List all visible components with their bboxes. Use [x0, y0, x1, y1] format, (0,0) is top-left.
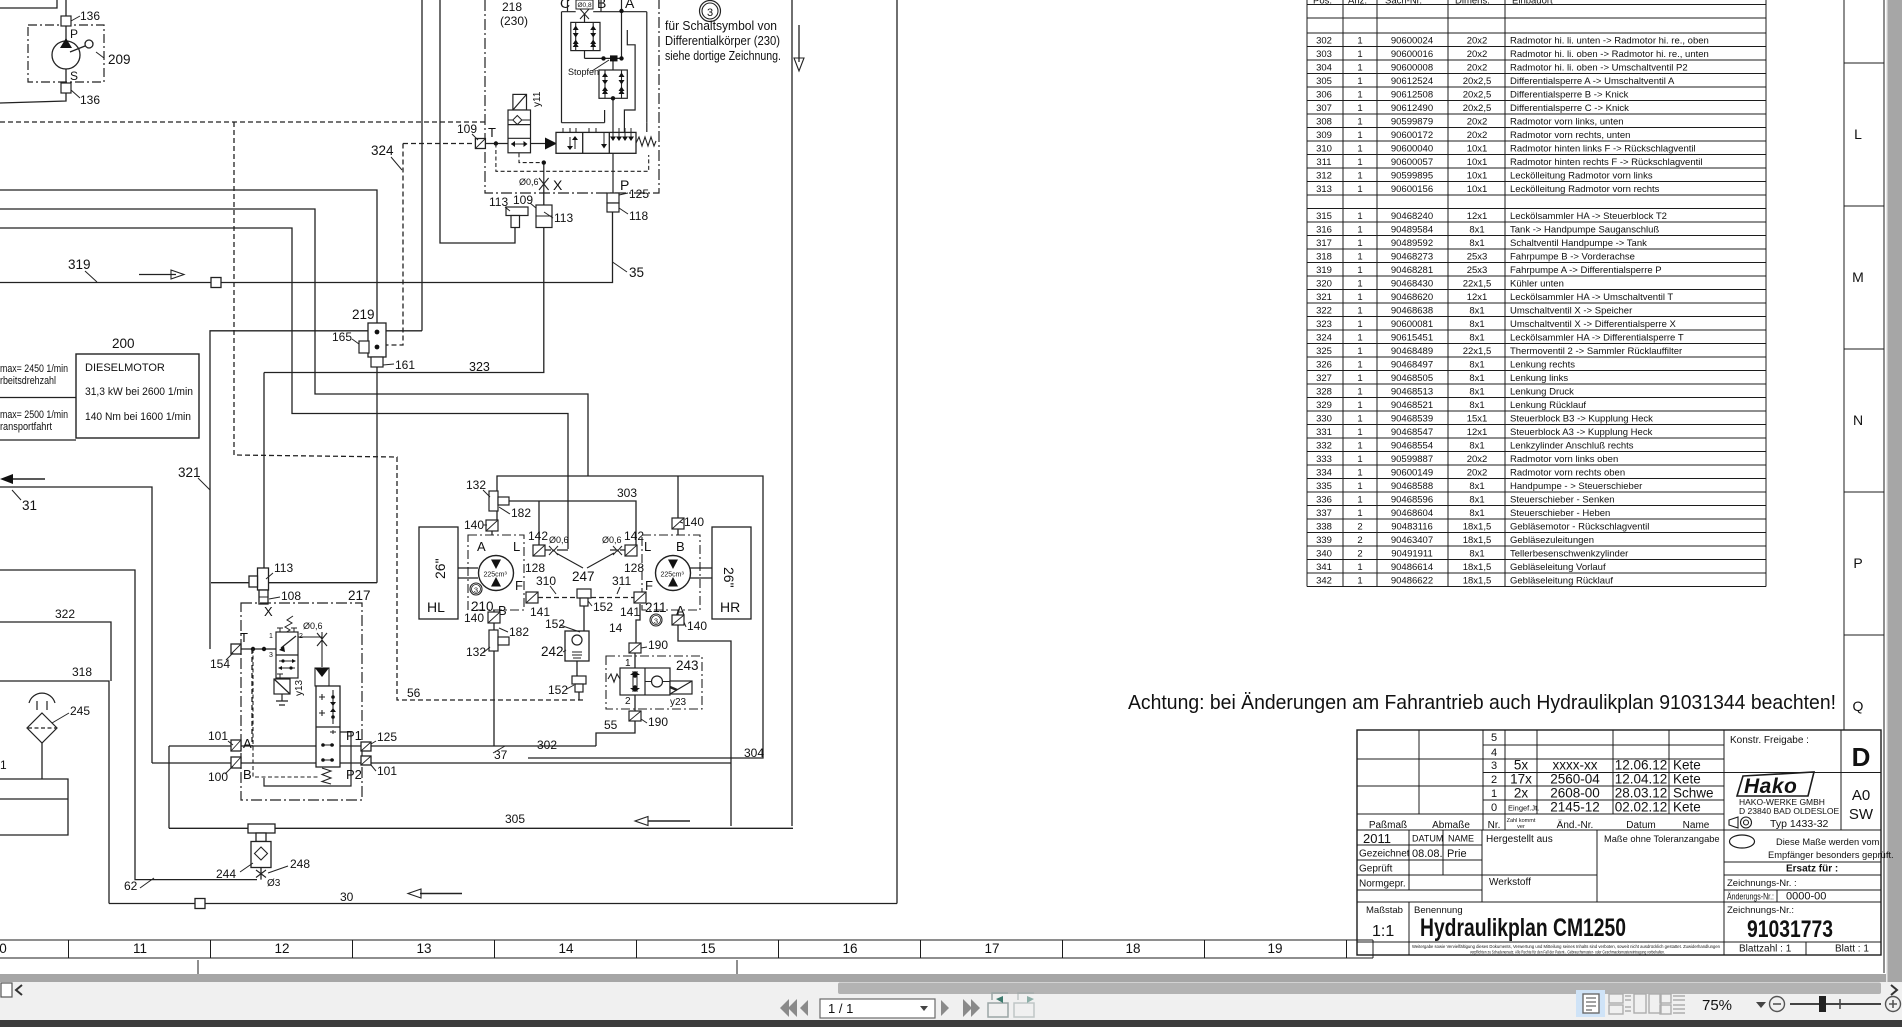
svg-text:132: 132: [466, 645, 486, 659]
svg-text:F: F: [645, 578, 653, 593]
svg-text:340: 340: [1316, 548, 1332, 559]
wire 55: [596, 721, 635, 746]
svg-text:1: 1: [1357, 494, 1362, 505]
svg-text:ver: ver: [1517, 824, 1525, 830]
svg-text:Gebläsezuleitungen: Gebläsezuleitungen: [1510, 535, 1594, 546]
svg-text:20x2,5: 20x2,5: [1463, 103, 1492, 114]
svg-text:A: A: [477, 539, 486, 554]
junction square on 319: [211, 278, 221, 288]
svg-text:335: 335: [1316, 481, 1332, 492]
svg-text:165: 165: [332, 330, 352, 344]
fitting 140 left top: [486, 520, 498, 531]
arrow on 30 line: [420, 893, 462, 895]
svg-text:D 23840 BAD OLDESLOE: D 23840 BAD OLDESLOE: [1739, 806, 1839, 816]
svg-text:Kete: Kete: [1673, 758, 1701, 773]
wire right outer vertical: [791, 0, 793, 826]
svg-text:3: 3: [654, 617, 658, 626]
svg-text:Schwe: Schwe: [1673, 786, 1714, 801]
svg-text:100: 100: [208, 770, 228, 784]
stamp oval: [1730, 835, 1755, 848]
zone tick L/M: [1844, 63, 1884, 635]
revision header row: [1369, 819, 1710, 831]
orifice 0,8 box: [576, 0, 593, 9]
svg-text:Gebläseleitung Rücklauf: Gebläseleitung Rücklauf: [1510, 575, 1613, 586]
svg-text:Differentialsperre A -> Umscha: Differentialsperre A -> Umschaltventil A: [1510, 76, 1675, 87]
wire 62 branch: [0, 570, 257, 880]
svg-text:20x2: 20x2: [1467, 116, 1488, 127]
svg-text:1: 1: [1357, 413, 1362, 424]
svg-text:75%: 75%: [1702, 997, 1732, 1014]
svg-text:Änd.-Nr.: Änd.-Nr.: [1557, 819, 1594, 831]
svg-text:Zeichnungs-Nr.:: Zeichnungs-Nr.:: [1727, 905, 1794, 916]
svg-text:8x1: 8x1: [1469, 332, 1484, 343]
svg-text:Typ 1433-32: Typ 1433-32: [1770, 818, 1829, 830]
svg-text:Geprüft: Geprüft: [1359, 864, 1393, 875]
tee 113/109 below X: [506, 205, 552, 228]
svg-text:1: 1: [1357, 575, 1362, 586]
left arrow annotation: [12, 478, 45, 480]
svg-text:140 Nm bei 1600 1/min: 140 Nm bei 1600 1/min: [85, 411, 191, 423]
svg-text:siehe dortige Zeichnung.: siehe dortige Zeichnung.: [665, 49, 781, 63]
svg-text:310: 310: [536, 574, 556, 588]
svg-text:182: 182: [511, 506, 531, 520]
svg-text:1: 1: [1357, 143, 1362, 154]
svg-text:Radmotor vorn rechts oben: Radmotor vorn rechts oben: [1510, 467, 1625, 478]
svg-text:305: 305: [1316, 76, 1332, 87]
svg-text:141: 141: [620, 605, 640, 619]
table header row: [1313, 0, 1553, 7]
svg-text:90463407: 90463407: [1391, 535, 1433, 546]
svg-text:1: 1: [1357, 76, 1362, 87]
svg-text:1: 1: [1357, 89, 1362, 100]
svg-text:225cm³: 225cm³: [484, 572, 508, 579]
svg-text:L: L: [644, 539, 651, 554]
svg-text:12x1: 12x1: [1467, 211, 1488, 222]
wire T to y11: [485, 143, 508, 145]
svg-text:Umschaltventil X -> Speicher: Umschaltventil X -> Speicher: [1510, 305, 1632, 316]
dashed pilot lines 218: [496, 144, 649, 172]
T port 217: [231, 644, 241, 654]
fitting 142 left: [533, 545, 545, 556]
ruler cell dividers: [69, 940, 1374, 958]
svg-text:211: 211: [645, 600, 667, 615]
wire L-port left: [538, 501, 540, 545]
svg-text:128: 128: [525, 561, 545, 575]
svg-text:332: 332: [1316, 440, 1332, 451]
svg-text:2608-00: 2608-00: [1550, 786, 1600, 801]
svg-text:90486622: 90486622: [1391, 575, 1433, 586]
svg-text:Blatt : 1: Blatt : 1: [1835, 944, 1869, 955]
svg-text:8x1: 8x1: [1469, 373, 1484, 384]
check cone: [315, 668, 329, 686]
svg-text:90600081: 90600081: [1391, 319, 1433, 330]
svg-text:90468521: 90468521: [1391, 400, 1433, 411]
right info rows: [1724, 862, 1881, 902]
svg-text:303: 303: [617, 486, 637, 500]
svg-text:Gebläsemotor - Rückschlagventi: Gebläsemotor - Rückschlagventil: [1510, 521, 1649, 532]
wire 190-line: [0, 190, 377, 323]
dashed wire 324 loop: [234, 122, 584, 700]
svg-text:8x1: 8x1: [1469, 508, 1484, 519]
svg-text:90600040: 90600040: [1391, 143, 1433, 154]
svg-text:1: 1: [1357, 319, 1362, 330]
svg-text:18x1,5: 18x1,5: [1463, 521, 1492, 532]
outer sheet right border: [1883, 0, 1885, 973]
svg-text:333: 333: [1316, 454, 1332, 465]
fitting 190 bottom: [629, 711, 641, 721]
svg-text:90468281: 90468281: [1391, 265, 1433, 276]
svg-text:25x3: 25x3: [1467, 265, 1488, 276]
check valve 242: [565, 631, 589, 661]
svg-text:B: B: [243, 767, 252, 782]
fitting 190 top: [629, 643, 641, 653]
tee 152 upper: [577, 589, 591, 606]
svg-text:20x2: 20x2: [1467, 467, 1488, 478]
HR wheel box: [712, 527, 751, 619]
svg-text:1: 1: [1357, 508, 1362, 519]
svg-text:8x1: 8x1: [1469, 319, 1484, 330]
svg-text:0: 0: [1491, 802, 1497, 814]
wire 323: [264, 190, 544, 373]
svg-text:20x2,5: 20x2,5: [1463, 89, 1492, 100]
svg-text:Maße ohne Toleranzangabe: Maße ohne Toleranzangabe: [1604, 834, 1720, 844]
svg-text:101: 101: [377, 764, 397, 778]
svg-text:311: 311: [612, 574, 631, 588]
243 spool: [620, 668, 670, 695]
svg-text:max= 2450 1/min: max= 2450 1/min: [0, 363, 68, 375]
wire valve to P1 chamber: [264, 732, 351, 786]
svg-text:90599895: 90599895: [1391, 170, 1433, 181]
svg-text:Steuerblock A3 -> Kupplung Hec: Steuerblock A3 -> Kupplung Heck: [1510, 427, 1653, 438]
tank: [0, 779, 68, 835]
wire A-port line: [169, 745, 596, 747]
svg-text:Radmotor vorn links, unten: Radmotor vorn links, unten: [1510, 116, 1624, 127]
svg-text:y23: y23: [670, 697, 687, 708]
svg-text:Kete: Kete: [1673, 800, 1701, 815]
svg-text:Paßmaß: Paßmaß: [1369, 820, 1407, 831]
svg-text:1: 1: [625, 658, 631, 669]
svg-text:323: 323: [469, 360, 490, 374]
svg-text:ransportfahrt: ransportfahrt: [0, 421, 52, 433]
view mode icon 2: [1609, 994, 1631, 1014]
svg-text:8x1: 8x1: [1469, 400, 1484, 411]
horizontal scrollbar track: [0, 974, 1886, 982]
fitting 136 top: [61, 16, 71, 26]
svg-text:1: 1: [1357, 359, 1362, 370]
wire 319/35: [0, 212, 613, 283]
svg-text:Ø0,8: Ø0,8: [578, 2, 592, 9]
svg-text:1: 1: [1357, 278, 1362, 289]
svg-text:1: 1: [1357, 49, 1362, 60]
svg-text:322: 322: [1316, 305, 1332, 316]
wire orifice row left: [545, 549, 568, 551]
svg-text:90468273: 90468273: [1391, 251, 1433, 262]
motor 210: [479, 556, 514, 591]
wire 243 risers: [634, 653, 636, 711]
svg-text:62: 62: [124, 879, 138, 893]
svg-text:L: L: [1854, 126, 1862, 142]
svg-text:90483116: 90483116: [1391, 521, 1433, 532]
pilot valve y13: [274, 616, 298, 694]
svg-text:321: 321: [178, 465, 201, 480]
svg-text:B: B: [597, 0, 606, 11]
svg-text:90599879: 90599879: [1391, 116, 1433, 127]
engine spec box 200: [76, 354, 199, 438]
svg-text:8x1: 8x1: [1469, 359, 1484, 370]
svg-text:T: T: [488, 125, 496, 140]
svg-text:Abmaße: Abmaße: [1432, 820, 1470, 831]
svg-text:312: 312: [1316, 170, 1332, 181]
dashed wire 324 to T: [386, 144, 476, 346]
svg-text:18x1,5: 18x1,5: [1463, 535, 1492, 546]
wire 228-line: [0, 228, 568, 549]
svg-text:190: 190: [648, 638, 668, 652]
svg-text:1: 1: [1357, 116, 1362, 127]
wire 322: [0, 622, 111, 681]
svg-text:318: 318: [1316, 251, 1332, 262]
svg-text:310: 310: [1316, 143, 1332, 154]
243 solenoid: [670, 681, 692, 694]
svg-text:90468638: 90468638: [1391, 305, 1433, 316]
svg-text:18x1,5: 18x1,5: [1463, 562, 1492, 573]
svg-text:2011: 2011: [1363, 831, 1391, 846]
spring 218 spool: [636, 137, 656, 146]
svg-text:Radmotor hi. li. unten -> Radm: Radmotor hi. li. unten -> Radmotor hi. r…: [1510, 35, 1709, 46]
zoom slider: [1790, 1003, 1881, 1005]
svg-text:90468620: 90468620: [1391, 292, 1433, 303]
svg-text:136: 136: [80, 93, 100, 107]
svg-text:305: 305: [505, 812, 525, 826]
svg-text:y13: y13: [294, 679, 305, 696]
svg-text:20x2: 20x2: [1467, 454, 1488, 465]
svg-text:5: 5: [1491, 732, 1497, 744]
svg-text:8x1: 8x1: [1469, 238, 1484, 249]
info circle 3 at 211: [650, 614, 662, 626]
svg-text:2: 2: [1357, 548, 1362, 559]
wire HR links: [690, 568, 712, 578]
svg-text:12: 12: [274, 941, 289, 956]
valve block 243: [606, 656, 702, 709]
svg-text:Kete: Kete: [1673, 772, 1701, 787]
zoom out button: [1770, 997, 1785, 1012]
svg-text:161: 161: [395, 358, 415, 372]
T port 218: [475, 139, 485, 149]
wire 242 stem: [577, 604, 584, 700]
svg-text:SW: SW: [1849, 806, 1874, 823]
svg-text:1: 1: [1357, 373, 1362, 384]
svg-text:A: A: [625, 0, 635, 11]
svg-text:Name: Name: [1683, 820, 1710, 831]
svg-text:Anz.: Anz.: [1348, 0, 1367, 7]
dashed F line: [538, 597, 634, 599]
wire 30 return: [109, 903, 897, 905]
svg-text:140: 140: [464, 518, 484, 532]
svg-text:128: 128: [624, 561, 644, 575]
svg-text:37: 37: [494, 748, 508, 762]
svg-text:Achtung: bei Änderungen am Fah: Achtung: bei Änderungen am Fahrantrieb a…: [1128, 691, 1836, 714]
svg-text:10x1: 10x1: [1467, 157, 1488, 168]
svg-text:20x2: 20x2: [1467, 130, 1488, 141]
svg-text:A0: A0: [1852, 787, 1870, 804]
component 219: [368, 323, 386, 357]
svg-text:20x2: 20x2: [1467, 35, 1488, 46]
dashed wire 324 top: [0, 121, 485, 123]
svg-text:1 / 1: 1 / 1: [828, 1001, 853, 1016]
svg-text:Zeichnungs-Nr. :: Zeichnungs-Nr. :: [1727, 878, 1797, 889]
svg-text:113: 113: [274, 561, 293, 575]
svg-text:1: 1: [1357, 427, 1362, 438]
svg-text:152: 152: [593, 600, 613, 614]
svg-text:1:1: 1:1: [1372, 923, 1394, 940]
svg-text:Leckölleitung Radmotor vorn re: Leckölleitung Radmotor vorn rechts: [1510, 184, 1660, 195]
svg-text:307: 307: [1316, 103, 1332, 114]
sheet bottom fold ticks: [198, 960, 737, 974]
svg-text:Werkstoff: Werkstoff: [1489, 877, 1531, 888]
svg-text:242: 242: [541, 644, 564, 659]
svg-text:10x1: 10x1: [1467, 170, 1488, 181]
wire right motor A drop: [678, 610, 731, 826]
port P1 217: [361, 742, 371, 751]
wire 14: [636, 604, 640, 643]
Hako logo: [1737, 772, 1814, 798]
svg-text:Datum: Datum: [1626, 820, 1655, 831]
svg-text:3: 3: [1491, 760, 1497, 772]
svg-text:2x: 2x: [1514, 786, 1529, 801]
fitting 161: [371, 357, 383, 367]
svg-text:20x2,5: 20x2,5: [1463, 76, 1492, 87]
svg-text:(230): (230): [500, 14, 528, 28]
svg-text:08.08.: 08.08.: [1412, 848, 1443, 860]
svg-text:Radmotor hi. li. oben -> Umsch: Radmotor hi. li. oben -> Umschaltventil …: [1510, 62, 1688, 73]
svg-text:Nr.: Nr.: [1488, 820, 1501, 831]
svg-text:12.06.12: 12.06.12: [1615, 758, 1668, 773]
wire 31-line: [0, 487, 152, 763]
check bridge upper: [571, 22, 600, 50]
svg-text:108: 108: [281, 589, 301, 603]
fitting 136 bottom: [61, 83, 71, 93]
svg-text:326: 326: [1316, 359, 1332, 370]
svg-text:Eingef.Jt.: Eingef.Jt.: [1508, 804, 1539, 813]
svg-text:8x1: 8x1: [1469, 548, 1484, 559]
svg-text:1: 1: [1357, 184, 1362, 195]
revision Nr digits: [1491, 732, 1497, 814]
svg-text:Schaltventil Handpumpe -> Tank: Schaltventil Handpumpe -> Tank: [1510, 238, 1647, 249]
svg-text:90600057: 90600057: [1391, 157, 1433, 168]
svg-text:3: 3: [474, 586, 478, 595]
svg-text:1: 1: [1357, 467, 1362, 478]
svg-text:Lenkung links: Lenkung links: [1510, 373, 1568, 384]
motor 211: [656, 556, 691, 591]
svg-text:rbeitsdrehzahl: rbeitsdrehzahl: [0, 375, 56, 387]
motor 211 enclosure: [642, 535, 700, 610]
svg-text:319: 319: [68, 257, 91, 272]
svg-text:19: 19: [1267, 941, 1282, 956]
svg-text:Ø0,6: Ø0,6: [519, 177, 539, 187]
svg-text:303: 303: [1316, 49, 1332, 60]
svg-text:304: 304: [744, 746, 764, 760]
fitting 165: [359, 341, 369, 353]
svg-text:306: 306: [1316, 89, 1332, 100]
svg-text:0: 0: [0, 941, 7, 956]
wire top-left corner: [0, 0, 57, 8]
svg-text:Differentialkörper (230): Differentialkörper (230): [665, 34, 780, 48]
fitting 142 right: [625, 545, 637, 556]
svg-text:90599887: 90599887: [1391, 454, 1433, 465]
svg-text:8x1: 8x1: [1469, 224, 1484, 235]
svg-text:336: 336: [1316, 494, 1332, 505]
svg-text:1: 1: [1357, 62, 1362, 73]
svg-text:18x1,5: 18x1,5: [1463, 575, 1492, 586]
svg-text:109: 109: [513, 193, 533, 207]
svg-text:1: 1: [1357, 400, 1362, 411]
svg-text:2145-12: 2145-12: [1550, 800, 1600, 815]
svg-text:90468547: 90468547: [1391, 427, 1433, 438]
ground symbol: [276, 694, 288, 705]
svg-text:338: 338: [1316, 521, 1332, 532]
tee 113 above 217: [249, 568, 269, 604]
nav prev-page icon: [800, 1000, 808, 1016]
svg-text:X: X: [264, 604, 273, 619]
wire HL links: [458, 568, 478, 578]
svg-text:22x1,5: 22x1,5: [1463, 346, 1492, 357]
svg-text:F: F: [515, 578, 523, 593]
port P2 217: [361, 756, 371, 765]
svg-text:Einbauort: Einbauort: [1512, 0, 1553, 7]
svg-text:Diese Maße werden vom: Diese Maße werden vom: [1776, 837, 1880, 847]
svg-text:P: P: [70, 27, 78, 41]
view mode icon 1 selected: [1576, 990, 1605, 1017]
pilot triangle: [545, 138, 557, 150]
svg-text:D: D: [1852, 742, 1871, 772]
svg-text:26": 26": [721, 567, 737, 588]
svg-text:Radmotor hinten rechts F -> Rü: Radmotor hinten rechts F -> Rückschlagve…: [1510, 157, 1702, 168]
svg-text:DATUM: DATUM: [1412, 834, 1443, 844]
fitting 141 left: [526, 592, 538, 603]
svg-text:X: X: [553, 177, 563, 193]
svg-text:P: P: [1853, 555, 1862, 571]
svg-text:311: 311: [1316, 157, 1331, 168]
svg-text:Tellerbesenschwenkzylinder: Tellerbesenschwenkzylinder: [1510, 548, 1628, 559]
svg-text:Lenkung Druck: Lenkung Druck: [1510, 386, 1574, 397]
check bridge lower: [599, 70, 627, 98]
svg-text:2560-04: 2560-04: [1550, 772, 1600, 787]
svg-text:317: 317: [1316, 238, 1332, 249]
svg-text:25x3: 25x3: [1467, 251, 1488, 262]
svg-text:245: 245: [70, 704, 90, 718]
svg-text:8x1: 8x1: [1469, 494, 1484, 505]
wire orifice row right: [610, 549, 625, 551]
svg-text:90468604: 90468604: [1391, 508, 1433, 519]
Stopfen plug: [610, 55, 618, 61]
svg-text:Differentialsperre B -> Knick: Differentialsperre B -> Knick: [1510, 89, 1629, 100]
svg-text:Stopfen: Stopfen: [568, 67, 599, 77]
svg-text:Leckölleitung Radmotor vorn li: Leckölleitung Radmotor vorn links: [1510, 170, 1653, 181]
svg-text:16: 16: [842, 941, 857, 956]
svg-text:Empfänger besonders geprüft.: Empfänger besonders geprüft.: [1768, 850, 1894, 860]
svg-text:30: 30: [340, 890, 354, 904]
svg-text:Gebläseleitung Vorlauf: Gebläseleitung Vorlauf: [1510, 562, 1606, 573]
svg-text:1: 1: [1357, 224, 1362, 235]
svg-text:Maßstab: Maßstab: [1366, 905, 1403, 916]
svg-text:HR: HR: [720, 599, 740, 615]
svg-text:304: 304: [1316, 62, 1332, 73]
svg-text:1: 1: [1357, 292, 1362, 303]
motor 210 enclosure: [468, 535, 524, 610]
svg-text:N: N: [1853, 412, 1863, 428]
port A 217: [231, 740, 241, 751]
svg-text:101: 101: [208, 729, 228, 743]
svg-text:90600156: 90600156: [1391, 184, 1433, 195]
